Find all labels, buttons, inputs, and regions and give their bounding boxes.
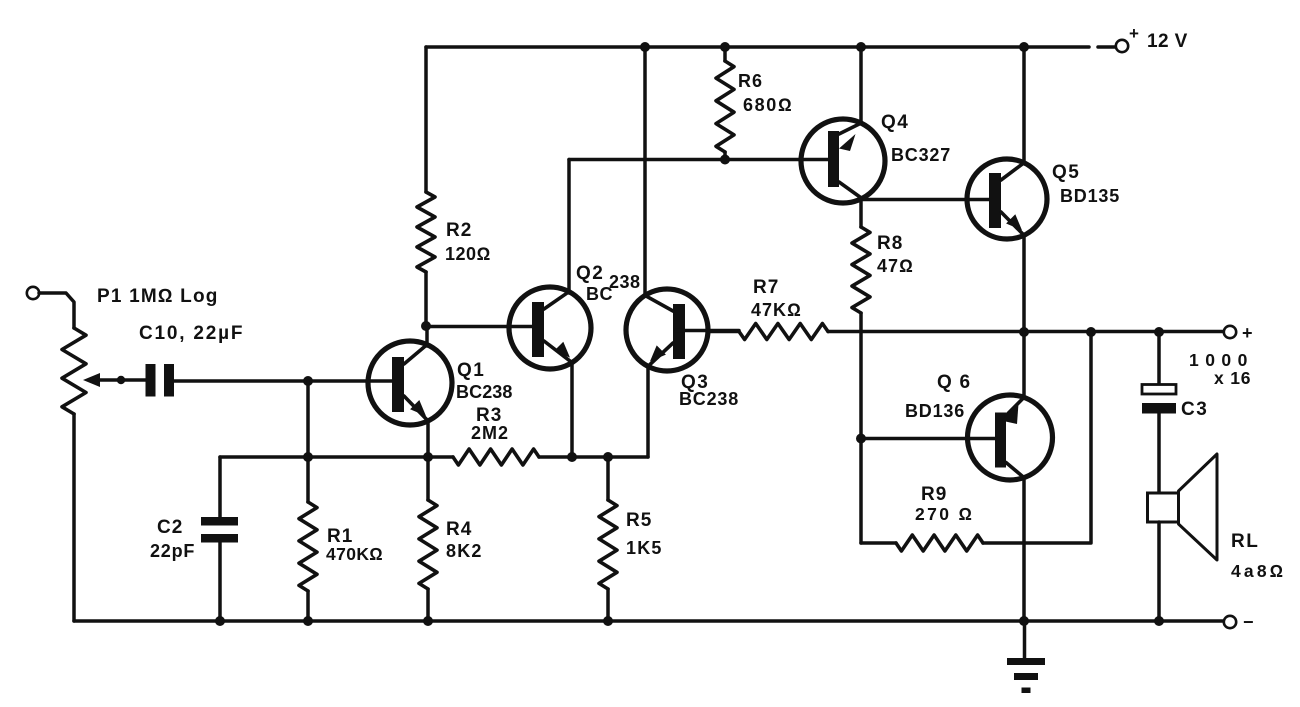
wire R4 bottom	[426, 589, 430, 621]
resistor R7	[739, 277, 828, 340]
svg-text:RL: RL	[1231, 531, 1259, 552]
resistor R6	[716, 61, 793, 152]
wire Q4 collector to Q5 base	[862, 198, 990, 202]
wire R8 bottom	[859, 313, 863, 543]
wire 1000x16 cap note	[1189, 350, 1251, 388]
svg-text:Q5: Q5	[1052, 162, 1080, 183]
node Q1 collector junction	[421, 321, 431, 331]
wire Q2 collector	[567, 160, 571, 294]
wire Q5 emitter	[1022, 235, 1026, 332]
svg-text:C3: C3	[1181, 399, 1208, 420]
wire C2 bottom	[218, 543, 222, 622]
node R1/R3 junction	[303, 452, 313, 462]
wire C3 to speaker	[1157, 414, 1161, 494]
svg-text:+: +	[1242, 323, 1253, 343]
wire C3 top	[1157, 332, 1161, 385]
svg-text:Q 6: Q 6	[937, 372, 971, 393]
wire C2 top	[218, 457, 222, 517]
terminal input	[27, 287, 39, 299]
resistor R9	[896, 484, 983, 551]
node wiper junction	[117, 376, 125, 384]
node R6 top junction	[720, 42, 730, 52]
capacitor C2	[150, 517, 238, 561]
node R4 bottom junction	[423, 616, 433, 626]
node Q2 emitter junction	[567, 452, 577, 462]
svg-text:47KΩ: 47KΩ	[751, 300, 802, 320]
svg-text:BD136: BD136	[905, 401, 965, 421]
svg-text:22pF: 22pF	[150, 541, 195, 561]
wire bottom rail	[74, 619, 1224, 623]
svg-text:1K5: 1K5	[626, 538, 663, 558]
wire R6 bottom stub	[723, 152, 727, 160]
wire R3 right	[539, 455, 648, 459]
svg-text:R9: R9	[921, 484, 947, 505]
svg-text:2M2: 2M2	[471, 423, 509, 443]
node output/C3 junction	[1154, 327, 1164, 337]
node C2 bottom junction	[215, 616, 225, 626]
terminal +12V	[1116, 24, 1188, 52]
capacitor C10	[139, 323, 244, 397]
svg-text:R6: R6	[738, 71, 763, 91]
wire R9 to output	[983, 332, 1091, 543]
wire R5 top	[606, 457, 610, 500]
node R5 bottom junction	[603, 616, 613, 626]
svg-text:R5: R5	[626, 510, 652, 531]
svg-text:680Ω: 680Ω	[743, 95, 793, 115]
node R6 bottom junction	[720, 155, 730, 165]
svg-text:4a8Ω: 4a8Ω	[1231, 561, 1286, 581]
svg-text:BC327: BC327	[891, 145, 951, 165]
svg-text:R2: R2	[446, 220, 472, 241]
resistor R8	[852, 227, 914, 313]
transistor Q2	[509, 263, 641, 369]
wire R1 top	[306, 381, 310, 502]
wire C2 horizontal	[220, 455, 453, 459]
transistor Q4	[801, 112, 951, 203]
svg-text:−: −	[1243, 612, 1254, 632]
node Q5 collector rail junction	[1019, 42, 1029, 52]
wire R5 bottom	[606, 589, 610, 621]
wire Q2 collector to Q4 base	[569, 158, 830, 162]
svg-text:270 Ω: 270 Ω	[915, 504, 975, 524]
wire Q6 collector down	[1022, 477, 1026, 621]
wire R4 top	[426, 457, 430, 500]
transistor Q6	[905, 372, 1053, 480]
wire R6 top stub	[723, 47, 727, 61]
speaker RL	[1148, 454, 1287, 581]
wire Q4 emitter	[859, 47, 863, 123]
node Q3 collector rail junction	[640, 42, 650, 52]
node R5 top junction	[603, 452, 613, 462]
wire Q4 collector to R8	[859, 199, 863, 227]
node C10/R1 junction	[303, 376, 313, 386]
terminal output +	[1224, 323, 1253, 343]
svg-text:P1 1MΩ Log: P1 1MΩ Log	[97, 286, 219, 307]
wire R2 top	[424, 47, 428, 192]
svg-text:120Ω: 120Ω	[445, 244, 491, 264]
transistor Q3	[626, 289, 739, 409]
wire +12V top rail	[426, 45, 1116, 49]
wire Q1 collector stub	[425, 326, 429, 346]
svg-text:Q4: Q4	[881, 112, 909, 133]
potentiometer P1	[62, 286, 219, 414]
wire R1 bottom	[306, 591, 310, 621]
wire Q1 emitter	[426, 421, 430, 457]
svg-text:Q2: Q2	[576, 263, 604, 284]
svg-text:x 16: x 16	[1214, 368, 1251, 388]
svg-text:BC238: BC238	[456, 382, 513, 402]
wire Q3 base to R7	[708, 330, 739, 334]
wire Q3 emitter	[646, 366, 650, 457]
svg-text:47Ω: 47Ω	[877, 256, 914, 276]
node ground junction	[1019, 616, 1029, 626]
svg-text:BC238: BC238	[679, 389, 739, 409]
transistor Q1	[368, 341, 513, 425]
wire P1 lower leg	[72, 414, 76, 621]
svg-text:R4: R4	[446, 519, 472, 540]
node R1 bottom junction	[303, 616, 313, 626]
wire R2 bottom	[424, 272, 428, 326]
resistor R2	[417, 192, 491, 272]
svg-text:C2: C2	[157, 517, 183, 538]
svg-text:R8: R8	[877, 233, 903, 254]
wire C10 to Q1 base	[174, 379, 393, 383]
svg-text:12 V: 12 V	[1147, 31, 1188, 52]
svg-text:238: 238	[609, 272, 641, 292]
wire Q5 collector	[1022, 47, 1026, 163]
svg-text:BD135: BD135	[1060, 186, 1120, 206]
node Q1 emitter junction	[423, 452, 433, 462]
node output/R9 junction	[1086, 327, 1096, 337]
svg-text:+: +	[1129, 24, 1139, 43]
ground	[1007, 621, 1045, 693]
wire input to P1	[39, 293, 74, 328]
svg-text:470KΩ: 470KΩ	[326, 544, 383, 564]
resistor R4	[419, 500, 483, 589]
wire speaker bottom	[1157, 522, 1161, 621]
svg-text:R7: R7	[753, 277, 779, 298]
node Q4 emitter rail junction	[856, 42, 866, 52]
wire R8 to R9	[861, 541, 896, 545]
wire Q3 collector	[643, 47, 647, 295]
capacitor C3	[1142, 385, 1208, 421]
resistor R1	[299, 502, 383, 591]
transistor Q5	[967, 159, 1120, 239]
terminal output -	[1224, 612, 1254, 632]
node Q6 base junction	[856, 434, 866, 444]
svg-text:C10, 22µF: C10, 22µF	[139, 323, 244, 344]
resistor R3	[453, 405, 539, 465]
wire output rail	[828, 330, 1224, 334]
node speaker bottom junction	[1154, 616, 1164, 626]
svg-text:8K2: 8K2	[446, 541, 483, 561]
wire Q3 base	[676, 329, 739, 333]
node Q5 emitter rail junction	[1019, 327, 1029, 337]
svg-text:Q1: Q1	[457, 360, 485, 381]
wire Q6 base	[861, 437, 996, 441]
wire Q2 emitter	[570, 363, 574, 457]
resistor R5	[599, 500, 663, 589]
wire Q5/Q6 emitter run upper	[1022, 332, 1026, 398]
wire Q1 collector to Q2 base	[426, 325, 534, 329]
svg-text:1 0 0 0: 1 0 0 0	[1189, 350, 1248, 370]
